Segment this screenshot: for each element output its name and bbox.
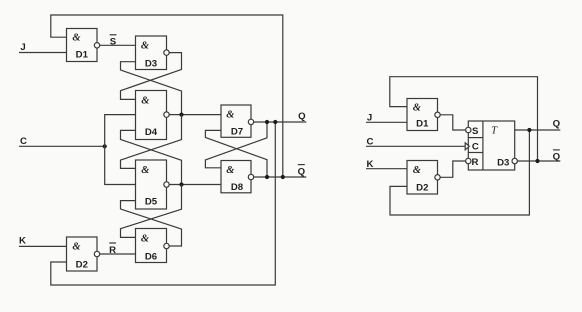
svg-text:D2: D2: [76, 259, 88, 270]
wire C bus to D4 and D5 middle inputs: [105, 115, 136, 185]
svg-text:D5: D5: [145, 197, 158, 208]
wire S-bar: D1 out to D3 input: [100, 44, 136, 46]
wire D4 out to D7 upper input: [169, 114, 221, 116]
wire D4 out to D5 upper input (cross): [121, 115, 182, 169]
junction C bus: [103, 144, 107, 148]
label Q-bar (right): [553, 150, 561, 163]
label Q-bar (left circuit): [298, 165, 306, 178]
wire top feedback Q-bar to D1 (right): [390, 77, 538, 161]
svg-text:&: &: [141, 165, 150, 176]
wire R-bar: D2 out to D6 lower input: [100, 253, 136, 255]
net label R-bar: [109, 243, 116, 256]
output bubble D3: [164, 50, 169, 55]
junction Q / cross wire: [265, 120, 269, 124]
wire J input to D1 (right): [366, 121, 407, 123]
junction Q-bar / cross wire: [265, 175, 269, 179]
flip-flop D3 (T type, S/C/R inputs): [468, 121, 514, 170]
svg-text:S: S: [472, 126, 479, 137]
wire D1 out to S input: [440, 115, 465, 130]
svg-text:&: &: [226, 165, 235, 176]
wire D3 out to D4 upper input (cross): [121, 53, 182, 100]
svg-text:D1: D1: [76, 50, 89, 61]
output bubble D2 (right): [435, 175, 440, 180]
svg-text:&: &: [226, 110, 235, 121]
svg-text:J: J: [20, 42, 25, 53]
wire D5 out to D8 lower input: [169, 184, 221, 186]
svg-text:C: C: [20, 136, 27, 147]
svg-text:&: &: [72, 33, 81, 44]
svg-text:D4: D4: [145, 127, 158, 138]
output Q line: [254, 121, 307, 123]
svg-text:Q: Q: [553, 119, 561, 130]
svg-text:&: &: [413, 103, 422, 114]
svg-text:&: &: [72, 242, 81, 253]
junction D5 output: [179, 182, 183, 186]
output Q-bar line (right): [517, 160, 560, 162]
wire J input to D1: [19, 52, 67, 54]
wire D6 out to D5 lower input (cross): [121, 201, 182, 246]
wire D8 out to D7 lower input (cross): [205, 130, 267, 177]
bubble R input: [466, 158, 471, 163]
output Q-bar line: [254, 176, 307, 178]
bubble Q-bar output: [512, 158, 517, 163]
svg-text:&: &: [141, 95, 150, 106]
NAND gate D2 (right): [407, 161, 438, 195]
svg-text:Q: Q: [553, 151, 561, 162]
svg-text:D8: D8: [231, 182, 244, 193]
junction Q-bar / top feedback (right): [535, 159, 539, 163]
junction D4 output: [179, 113, 183, 117]
net label S-bar: [110, 35, 117, 48]
output bubble D1 (right): [435, 112, 440, 117]
junction Q / bottom feedback: [273, 120, 277, 124]
wire D2 out to R input: [440, 161, 465, 177]
wire Q to D8 upper input (cross): [205, 122, 267, 168]
wire K input to D2 (right): [366, 168, 407, 170]
wire D4 out to D3 lower input (cross): [121, 62, 182, 115]
svg-text:&: &: [141, 234, 150, 245]
svg-text:D2: D2: [416, 182, 428, 193]
svg-text:Q: Q: [298, 166, 306, 177]
NAND gate D1: [67, 29, 98, 62]
svg-text:D1: D1: [416, 119, 429, 130]
output bubble D6: [164, 243, 169, 248]
output bubble D1: [94, 43, 99, 48]
svg-text:&: &: [413, 165, 422, 176]
NAND gate D6: [136, 229, 167, 263]
wire bottom feedback Q to D2 lower input: [51, 122, 275, 285]
svg-text:&: &: [141, 40, 150, 51]
NAND gate D1 (right): [407, 99, 438, 131]
svg-text:D3: D3: [145, 58, 157, 69]
svg-text:D3: D3: [497, 157, 509, 168]
wire C input to flip-flop (right): [366, 145, 465, 147]
output bubble D2: [94, 251, 99, 256]
NAND gate D2: [67, 237, 98, 271]
output bubble D8: [248, 174, 253, 179]
NAND gate D4: [136, 91, 167, 140]
output bubble D7: [248, 119, 253, 124]
dynamic indicator C input: [465, 143, 469, 150]
svg-text:K: K: [19, 236, 26, 247]
svg-text:R: R: [472, 157, 479, 168]
svg-text:D6: D6: [145, 252, 157, 263]
wire top feedback Q-bar to D1 upper input: [51, 15, 283, 177]
svg-text:Q: Q: [298, 111, 306, 122]
NAND gate D3: [136, 36, 167, 70]
wire C input: [19, 145, 105, 147]
bubble S input: [466, 127, 471, 132]
NAND gate D5: [136, 160, 167, 209]
svg-text:S: S: [110, 37, 117, 48]
wire bottom feedback Q to D2 (right): [390, 130, 529, 215]
output bubble D5: [164, 182, 169, 187]
output bubble D4: [164, 112, 169, 117]
svg-text:C: C: [472, 142, 479, 153]
NAND gate D7: [221, 105, 251, 137]
NAND gate D8: [221, 161, 251, 193]
wire D5 out to D6 upper input (cross): [121, 185, 182, 238]
junction Q-bar / top feedback: [281, 175, 285, 179]
junction Q / bottom feedback (right): [527, 128, 531, 132]
svg-text:D7: D7: [231, 126, 243, 137]
wire D5 out to D4 lower input (cross): [121, 130, 182, 184]
output Q line (right): [515, 129, 561, 131]
wire K input to D2: [19, 245, 67, 247]
